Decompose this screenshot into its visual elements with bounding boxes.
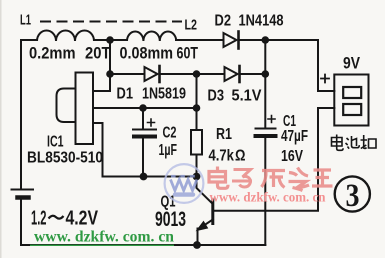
battery clip 9V box <box>334 75 368 126</box>
svg-text:9V: 9V <box>343 55 360 73</box>
svg-text:L2: L2 <box>185 17 198 34</box>
svg-text:60T: 60T <box>177 45 199 63</box>
wire node C to D1 <box>110 73 144 75</box>
node C junction dot (x110 on D1 wire) <box>106 70 114 78</box>
wire vertical node A down to D1 level and IC pin1 <box>93 40 110 91</box>
node F junction dot (C2 top) <box>139 104 147 112</box>
svg-text:16V: 16V <box>281 148 304 165</box>
wire D1 to node D <box>161 73 197 75</box>
wire node B down to node E <box>264 40 266 74</box>
svg-text:D1: D1 <box>117 86 134 103</box>
red watermark big characters dian zi kai fa wang <box>209 167 333 191</box>
C1 plus sign <box>268 116 275 123</box>
C2 plus sign <box>148 119 155 126</box>
svg-text:C2: C2 <box>163 125 177 142</box>
svg-text:3: 3 <box>346 178 360 214</box>
zener diode D3 5.1V <box>225 66 240 82</box>
node I junction dot (R1 bottom / Q1 collector) <box>193 173 201 181</box>
inductor L2 0.08mm 60T <box>127 32 176 41</box>
svg-text:20T: 20T <box>85 45 111 63</box>
wire D3 to node E <box>241 73 266 75</box>
wire Q1 base to battery clip negative <box>214 108 334 211</box>
svg-text:0.08mm: 0.08mm <box>120 45 174 63</box>
wire IC pin2 to R1 top <box>93 107 197 109</box>
wire node A to L2 <box>110 39 127 41</box>
node A junction dot <box>106 36 114 44</box>
wire L1 to node A <box>94 39 110 41</box>
svg-text:BL8530-510: BL8530-510 <box>27 150 103 167</box>
svg-text:1N5819: 1N5819 <box>142 86 186 103</box>
node D junction dot <box>193 70 201 78</box>
svg-text:1.2: 1.2 <box>31 207 47 230</box>
wire IC pin3 down to bottom rail of IC section <box>93 123 197 177</box>
svg-text:D3: D3 <box>208 88 225 105</box>
svg-text:www. dzkfw. com. cn: www. dzkfw. com. cn <box>210 190 326 205</box>
clip plus sign <box>321 75 329 83</box>
named net circle 3 <box>335 176 370 211</box>
wire L2 to D2 <box>176 39 223 41</box>
transistor Q1 9013 <box>197 177 213 246</box>
svg-text:5.1V: 5.1V <box>232 88 262 105</box>
wire battery minus down and bottom rail <box>21 200 265 246</box>
svg-text:www. dzkfw. com. cn: www. dzkfw. com. cn <box>34 229 174 246</box>
svg-text:47µF: 47µF <box>281 128 308 145</box>
capacitor C2 1uF <box>133 108 156 177</box>
svg-text:D2: D2 <box>215 13 232 30</box>
svg-text:1N4148: 1N4148 <box>239 13 284 30</box>
node J junction dot (Q1 emitter on bottom rail) <box>193 241 201 249</box>
svg-text:0.2mm: 0.2mm <box>29 45 76 63</box>
op-amp IC1 BL8530-510 body <box>57 73 94 145</box>
wire top-left corner to L1 <box>21 40 37 188</box>
diode D2 1N4148 <box>224 32 239 49</box>
node E junction dot <box>262 70 270 78</box>
node B junction dot (top wire / C1 branch) <box>262 36 270 44</box>
wire node D to D3 <box>197 73 225 75</box>
svg-text:IC1: IC1 <box>47 134 64 151</box>
dashed coupling line L1-L2 <box>40 21 182 23</box>
svg-text:R1: R1 <box>216 126 232 143</box>
wire D2 to top-right corner then down to clip + <box>240 40 335 91</box>
diode D1 1N5819 <box>145 66 160 82</box>
node H junction dot (C2 bottom) <box>140 173 148 181</box>
svg-text:4.7k Ω: 4.7k Ω <box>209 148 246 165</box>
svg-text:4.2V: 4.2V <box>66 207 99 230</box>
capacitor C1 47uF 16V <box>256 74 276 245</box>
resistor R1 4.7k <box>191 74 202 177</box>
svg-text:L1: L1 <box>20 12 31 29</box>
label battery clip Chinese "dian chi kou" <box>332 135 377 151</box>
scan edge shading left <box>0 0 2 258</box>
node G junction dot (R1 top) <box>193 104 201 112</box>
inductor L1 0.2mm 20T <box>37 31 94 41</box>
battery cell 1.2-4.2V <box>12 190 34 198</box>
blue watermark logo circle W <box>165 164 204 203</box>
svg-text:1µF: 1µF <box>159 142 178 159</box>
